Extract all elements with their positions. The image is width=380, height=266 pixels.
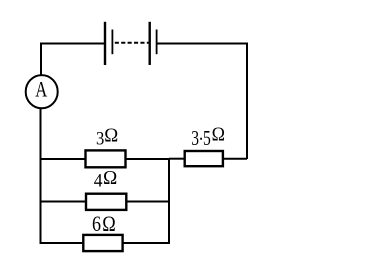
- wire branch-2 left segment (to 4 ohm): [40, 201, 87, 203]
- battery B1 cell2 short plate: [156, 30, 158, 55]
- svg-text:Ω: Ω: [103, 167, 117, 189]
- ammeter A1 circle: [26, 75, 58, 108]
- wire from parallel bank to 3.5 ohm resistor: [169, 158, 184, 160]
- wire top-right horizontal (battery to right corner): [157, 44, 247, 160]
- svg-text:3: 3: [96, 129, 104, 150]
- battery dashed link wire: [115, 42, 149, 44]
- wire branch-1 right segment: [126, 158, 171, 160]
- resistor R4 3.5 ohm box: [185, 151, 223, 166]
- wire branch-3 right segment: [123, 242, 170, 244]
- svg-text:Ω: Ω: [212, 124, 225, 146]
- wire branch-1 left segment (to 3 ohm): [40, 158, 86, 160]
- wire left vertical below ammeter: [40, 108, 42, 244]
- battery B1 cell2 long plate: [148, 22, 150, 65]
- resistor R2 4 ohm box: [86, 194, 126, 210]
- svg-text:A: A: [35, 77, 47, 101]
- wire right-side horizontal into 3.5 ohm resistor: [224, 158, 247, 160]
- wire branch-2 right segment: [126, 201, 170, 203]
- resistor R3 6 ohm box: [83, 235, 122, 251]
- wire right bus vertical of parallel bank: [168, 158, 170, 244]
- svg-text:Ω: Ω: [102, 211, 116, 236]
- battery B1 cell1 long plate: [104, 22, 106, 65]
- svg-text:4: 4: [94, 171, 103, 192]
- wire top-left horizontal (corner to battery): [41, 44, 105, 77]
- svg-text:Ω: Ω: [104, 125, 118, 147]
- wire branch-3 left segment (to 6 ohm): [40, 242, 84, 244]
- svg-text:6: 6: [92, 212, 101, 236]
- battery B1 cell1 short plate: [111, 30, 113, 55]
- resistor R1 3 ohm box: [86, 150, 126, 167]
